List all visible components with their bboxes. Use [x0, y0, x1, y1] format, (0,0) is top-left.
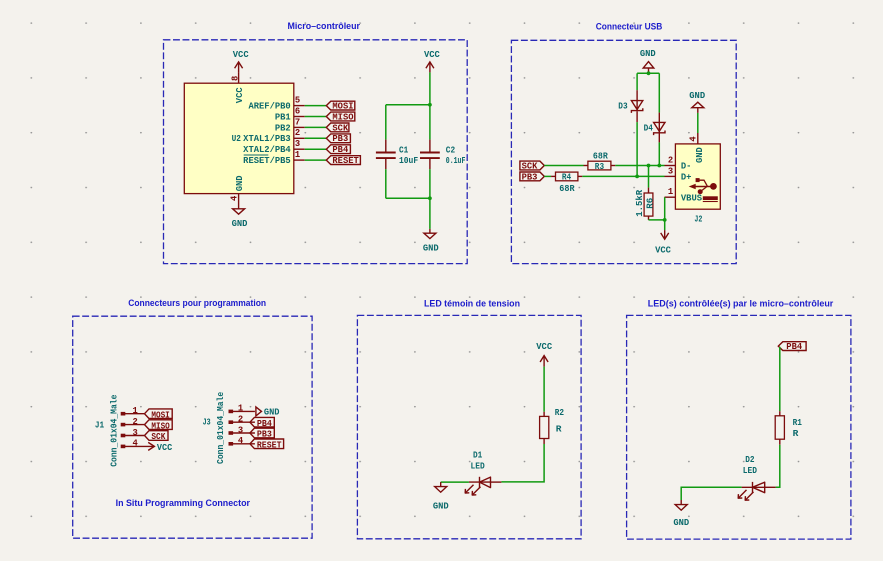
capacitor C2 [420, 140, 466, 170]
wire [544, 175, 551, 177]
resistor R2 [540, 407, 565, 444]
svg-text:Connecteurs pour programmation: Connecteurs pour programmation [128, 298, 266, 308]
global label MISO [326, 112, 355, 122]
junction [647, 71, 651, 75]
wire [697, 113, 699, 133]
pin 2 D- of J2 [665, 156, 692, 172]
wire [543, 367, 545, 412]
wire [385, 105, 387, 140]
svg-text:1: 1 [295, 150, 300, 160]
global label PB3 [326, 134, 350, 144]
svg-text:2: 2 [133, 417, 138, 427]
resistor R1 [775, 411, 802, 445]
svg-text:R3: R3 [595, 161, 604, 172]
svg-text:RESET: RESET [332, 156, 359, 166]
pin 4 [230, 194, 240, 205]
svg-text:LED témoin de tension: LED témoin de tension [424, 299, 520, 309]
pin 4 of J3 [229, 436, 255, 446]
wire [429, 105, 431, 140]
connector J1 [95, 394, 120, 466]
wire [658, 142, 660, 165]
svg-text:MOSI: MOSI [151, 410, 169, 420]
pin 3 D+ of J2 [665, 166, 692, 182]
ground (below U2) [232, 205, 248, 229]
svg-text:J2: J2 [694, 213, 702, 224]
svg-text:3: 3 [238, 425, 243, 435]
svg-text:GND: GND [673, 518, 689, 528]
global label MOSI (J1) [145, 409, 173, 421]
junction [657, 164, 661, 168]
svg-text:GND: GND [232, 219, 248, 229]
wire [648, 166, 650, 188]
pin 3 of J3 [229, 425, 255, 435]
svg-text:D+: D+ [681, 173, 692, 183]
svg-text:XTAL1/PB3: XTAL1/PB3 [243, 134, 291, 144]
wire [429, 198, 431, 229]
pin 7 PB2 [275, 117, 305, 133]
sheet box: Micro-controleur [164, 21, 468, 264]
svg-text:D-: D- [681, 162, 692, 172]
svg-text:D2: D2 [745, 454, 754, 465]
global label RESET [326, 156, 360, 166]
sheet box: LED(s) controlee(s) par le micro-controleur [627, 299, 851, 539]
svg-text:R: R [556, 424, 562, 435]
wire [441, 481, 469, 483]
sheet box: Connecteurs pour programmation [73, 298, 312, 538]
svg-text:MOSI: MOSI [332, 102, 353, 112]
LED D2 [738, 454, 775, 500]
svg-text:1: 1 [668, 187, 673, 197]
svg-text:Conn_01x04_Male: Conn_01x04_Male [109, 394, 120, 466]
svg-text:VCC: VCC [655, 246, 672, 256]
wire [544, 165, 583, 167]
ground (block5) [673, 500, 689, 528]
svg-text:VCC: VCC [235, 87, 245, 104]
wire [429, 72, 431, 104]
resistor R6 [634, 188, 656, 220]
svg-text:R6: R6 [645, 197, 656, 208]
USB icon in J2 [689, 178, 718, 201]
pin 2 XTAL1/PB3 [243, 128, 305, 144]
connector J2 body [675, 144, 720, 209]
svg-text:7: 7 [295, 117, 300, 127]
global label MISO (J1) [145, 420, 173, 432]
svg-text:Conn_01x04_Male: Conn_01x04_Male [215, 392, 226, 464]
wire [658, 73, 660, 112]
svg-text:VCC: VCC [233, 50, 250, 60]
svg-text:R1: R1 [793, 417, 802, 428]
svg-text:VBUS: VBUS [681, 193, 702, 203]
pin 1 of J3 [229, 404, 255, 414]
wire [637, 72, 659, 74]
svg-text:Micro–contrôleur: Micro–contrôleur [288, 21, 361, 31]
wire [305, 148, 327, 150]
sheet box: LED temoin de tension [357, 299, 581, 539]
svg-text:GND: GND [640, 49, 656, 59]
svg-text:AREF/PB0: AREF/PB0 [248, 102, 290, 112]
global label PB4 [326, 145, 350, 155]
wire [305, 159, 327, 161]
power VCC (below J2, pointing down) [655, 230, 672, 255]
global label PB4 (J3) [250, 417, 274, 429]
wire [305, 126, 327, 128]
power VCC (J1 pin4, pointing right) [148, 442, 172, 453]
svg-text:SCK: SCK [151, 432, 166, 442]
global label SCK [326, 123, 349, 133]
svg-text:VCC: VCC [536, 342, 553, 352]
svg-text:C2: C2 [446, 145, 455, 156]
capacitor C1 [376, 140, 418, 170]
svg-text:PB3: PB3 [332, 134, 348, 144]
pin 2 of J1 [121, 417, 144, 427]
svg-text:PB1: PB1 [275, 112, 291, 122]
wire [582, 175, 664, 177]
power VCC (cap network) [424, 50, 441, 73]
wire [305, 105, 327, 107]
svg-text:GND: GND [235, 175, 245, 191]
IC U2 body [184, 83, 293, 193]
pin 1 VBUS of J2 [665, 187, 703, 203]
wire [681, 487, 741, 500]
wire [385, 169, 387, 198]
zener diode D4 [644, 113, 665, 143]
svg-text:SCK: SCK [522, 161, 539, 171]
svg-text:In Situ Programming Connector: In Situ Programming Connector [116, 498, 251, 508]
global label PB4 (block5) [778, 342, 806, 352]
wire [305, 116, 327, 118]
svg-text:VCC: VCC [157, 442, 173, 453]
wire [636, 73, 638, 90]
svg-text:RESET: RESET [257, 441, 282, 451]
svg-text:RESET/PB5: RESET/PB5 [243, 156, 291, 166]
global label MOSI [326, 101, 355, 111]
svg-text:D3: D3 [618, 100, 627, 111]
svg-text:D1: D1 [473, 450, 482, 461]
svg-text:J1: J1 [95, 420, 104, 431]
wire [649, 219, 665, 221]
resistor R3 [584, 151, 616, 172]
junction [635, 175, 639, 179]
global label PB3 (J3) [250, 428, 274, 440]
junction [663, 218, 667, 222]
ground (top rail) [640, 49, 656, 73]
svg-text:C1: C1 [399, 145, 408, 156]
svg-text:PB2: PB2 [275, 123, 291, 133]
svg-text:R: R [793, 428, 799, 439]
junction [428, 103, 432, 107]
connector J3 [203, 392, 226, 464]
pin 1 of J1 [121, 406, 144, 416]
svg-text:6: 6 [295, 106, 300, 116]
svg-text:4: 4 [238, 436, 244, 446]
svg-text:PB3: PB3 [522, 172, 538, 182]
svg-text:R2: R2 [555, 407, 564, 418]
global label SCK [520, 161, 544, 171]
svg-text:10uF: 10uF [399, 155, 418, 166]
svg-text:U2: U2 [232, 133, 241, 144]
pin 3 of J1 [121, 428, 144, 438]
pin 1 RESET/PB5 [243, 150, 305, 166]
zener diode D3 [618, 90, 643, 122]
resistor R4 [551, 172, 582, 194]
ground (cap network) [423, 229, 439, 253]
svg-text:8: 8 [230, 76, 240, 81]
svg-text:D4: D4 [644, 122, 653, 133]
svg-text:LED: LED [743, 465, 757, 476]
svg-text:1.5kR: 1.5kR [634, 190, 645, 217]
svg-text:PB4: PB4 [786, 342, 803, 352]
global label SCK (J1) [145, 431, 169, 443]
svg-text:Connecteur USB: Connecteur USB [596, 22, 663, 32]
svg-text:2: 2 [295, 128, 300, 138]
svg-text:68R: 68R [559, 183, 575, 194]
pin 3 XTAL2/PB4 [243, 139, 305, 155]
pin 6 PB1 [275, 106, 305, 122]
svg-text:PB4: PB4 [257, 419, 273, 429]
svg-text:2: 2 [238, 415, 243, 425]
wire [776, 445, 780, 488]
wire [636, 122, 638, 176]
power VCC (top of U2) [233, 50, 250, 73]
svg-text:XTAL2/PB4: XTAL2/PB4 [243, 145, 291, 155]
svg-text:PB3: PB3 [257, 430, 272, 440]
wire [615, 165, 664, 167]
wire [386, 197, 430, 199]
ground (at J2) [689, 91, 705, 113]
power GND (J3 pin1, pointing right) [256, 407, 280, 418]
pin 2 of J3 [229, 415, 255, 425]
svg-text:3: 3 [133, 428, 138, 438]
global label RESET (J3) [250, 439, 284, 451]
pin 4 of J1 [121, 439, 155, 449]
svg-text:3: 3 [295, 139, 300, 149]
svg-text:LED(s) contrôlée(s) par le mic: LED(s) contrôlée(s) par le micro–contrôl… [648, 299, 834, 309]
sheet box: Connecteur USB [511, 22, 736, 264]
svg-text:R4: R4 [562, 172, 571, 183]
svg-text:GND: GND [433, 501, 449, 511]
svg-text:GND: GND [264, 407, 280, 418]
svg-text:4: 4 [133, 439, 139, 449]
svg-text:VCC: VCC [424, 50, 441, 60]
svg-text:4: 4 [689, 136, 699, 142]
junction [428, 196, 432, 200]
svg-text:MISO: MISO [151, 421, 169, 431]
LED D1 [465, 450, 501, 495]
svg-text:LED: LED [471, 460, 485, 471]
svg-text:4: 4 [230, 195, 240, 201]
pin 4 of J2 [689, 133, 705, 163]
svg-text:SCK: SCK [332, 123, 349, 133]
svg-text:5: 5 [295, 96, 300, 106]
svg-text:PB4: PB4 [332, 145, 349, 155]
power VCC (block4) [536, 342, 553, 367]
svg-text:GND: GND [695, 147, 705, 163]
wire [501, 444, 544, 482]
svg-text:0.1uF: 0.1uF [446, 155, 466, 166]
svg-text:3: 3 [668, 166, 673, 176]
global label PB3 [520, 172, 544, 182]
svg-text:GND: GND [689, 91, 705, 101]
svg-text:J3: J3 [203, 416, 211, 427]
wire [664, 197, 666, 220]
junction [647, 164, 651, 168]
pin 8 [230, 72, 240, 83]
wire [664, 220, 666, 230]
svg-text:GND: GND [423, 243, 439, 253]
svg-text:MISO: MISO [332, 112, 353, 122]
svg-text:1: 1 [238, 404, 243, 414]
svg-text:1: 1 [133, 406, 138, 416]
ground (block4) [433, 482, 449, 511]
wire [429, 169, 431, 198]
pin 5 AREF/PB0 [248, 96, 304, 112]
wire [386, 104, 430, 106]
svg-text:2: 2 [668, 156, 673, 166]
wire [305, 137, 327, 139]
wire [779, 347, 781, 411]
